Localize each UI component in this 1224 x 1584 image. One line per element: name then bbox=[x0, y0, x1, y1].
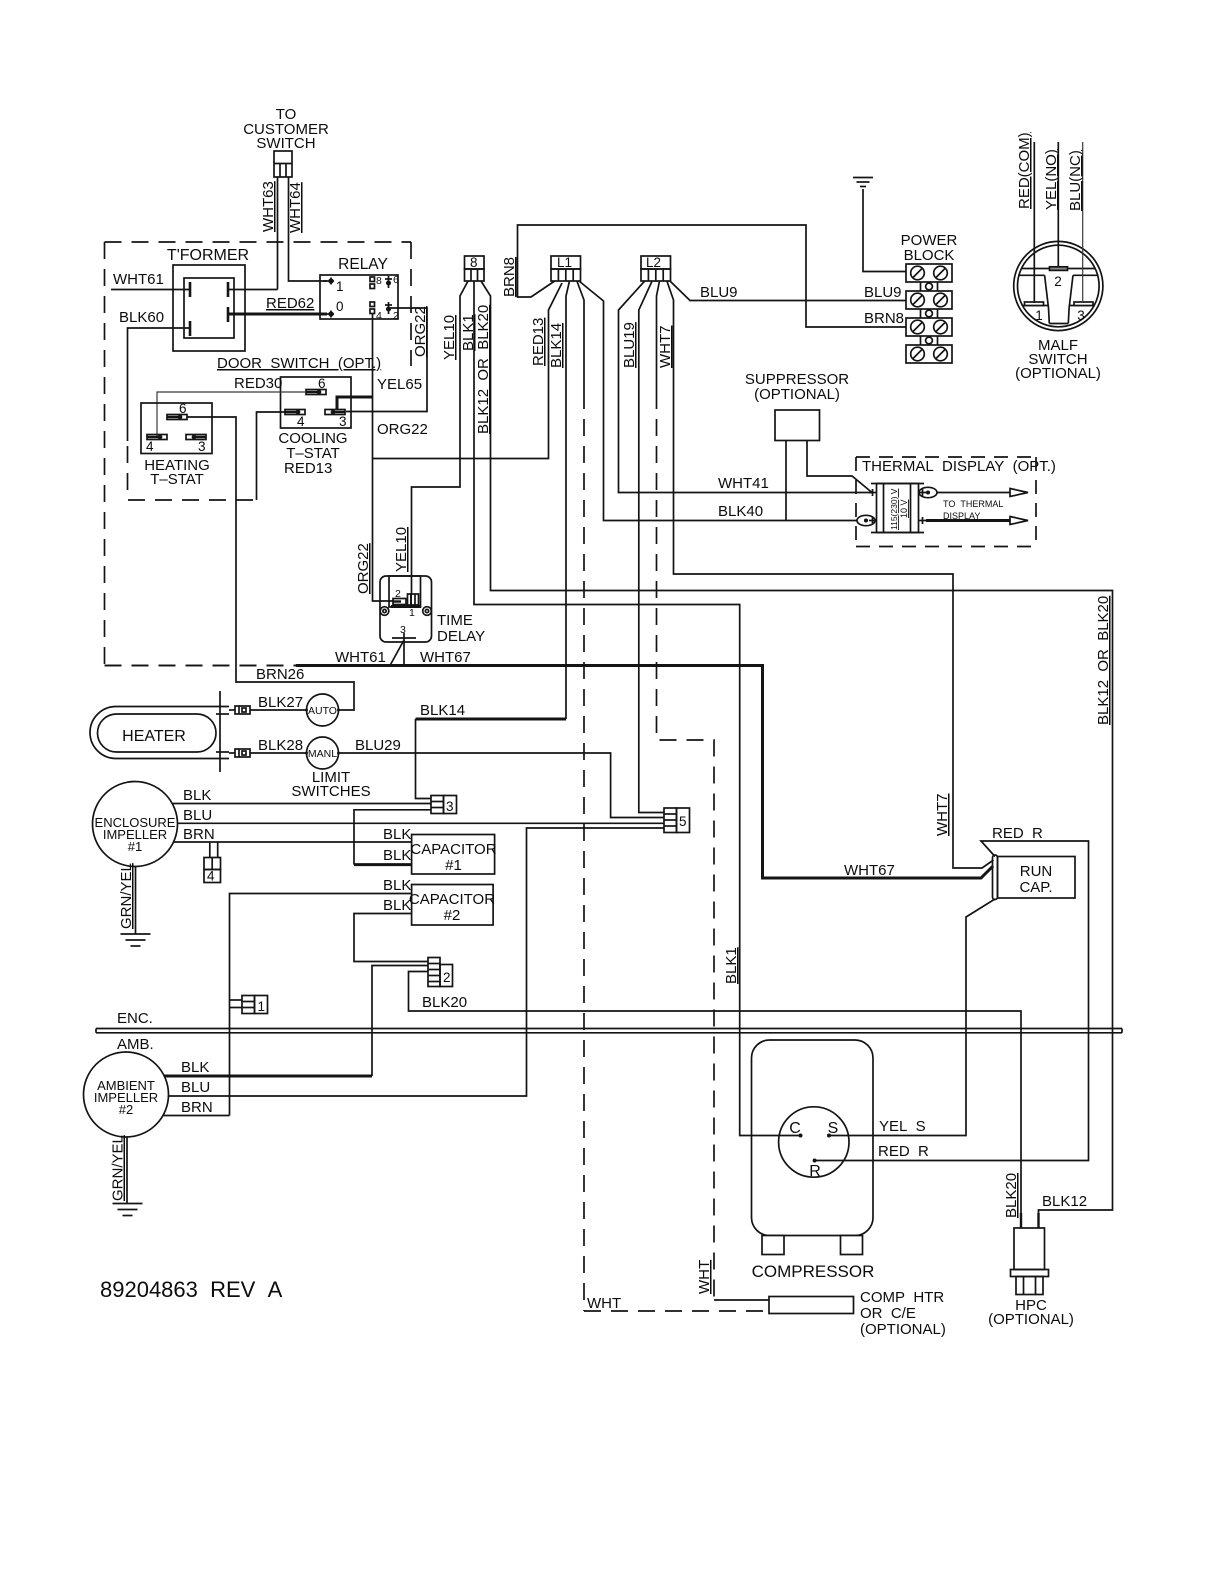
svg-text:10 V: 10 V bbox=[899, 499, 909, 518]
svg-text:6: 6 bbox=[179, 401, 187, 416]
svg-text:BLK: BLK bbox=[383, 826, 411, 843]
svg-text:4: 4 bbox=[207, 869, 215, 884]
svg-text:DELAY: DELAY bbox=[437, 628, 485, 645]
dashed box THERMAL DISPLAY (OPT.) bbox=[856, 457, 1036, 547]
svg-text:BLK12 OR BLK20: BLK12 OR BLK20 bbox=[1095, 596, 1112, 725]
label TO THERMAL DISPLAY bbox=[943, 499, 1003, 521]
svg-text:BLU9: BLU9 bbox=[700, 284, 738, 301]
svg-text:BLU29: BLU29 bbox=[355, 737, 401, 754]
connector 4 bbox=[204, 858, 221, 884]
svg-text:S: S bbox=[828, 1120, 839, 1137]
svg-text:BRN26: BRN26 bbox=[256, 666, 304, 683]
svg-text:YEL10: YEL10 bbox=[441, 315, 458, 360]
svg-text:(OPTIONAL): (OPTIONAL) bbox=[988, 1311, 1074, 1328]
svg-text:3: 3 bbox=[400, 624, 406, 636]
connector customer switch bbox=[274, 151, 292, 177]
svg-text:(OPTIONAL): (OPTIONAL) bbox=[860, 1321, 946, 1338]
svg-text:2: 2 bbox=[395, 588, 401, 600]
svg-text:5: 5 bbox=[679, 814, 687, 829]
svg-text:YEL10: YEL10 bbox=[393, 527, 410, 572]
heater COMP HTR OR C/E (OPTIONAL) bbox=[769, 1289, 946, 1338]
connector L1 bbox=[551, 255, 581, 281]
svg-text:2: 2 bbox=[443, 970, 451, 985]
partition line ENC/AMB bbox=[96, 1029, 1122, 1033]
ground wire GRN/YEL impeller1 bbox=[118, 863, 136, 934]
svg-text:RED62: RED62 bbox=[266, 295, 314, 312]
svg-text:ENC.: ENC. bbox=[117, 1010, 153, 1027]
wire BLK14 horizontal to connector 3 bbox=[416, 702, 567, 799]
svg-text:BLK40: BLK40 bbox=[718, 503, 763, 520]
svg-text:WHT7: WHT7 bbox=[657, 326, 674, 369]
wire WHT7 from L2 to run capacitor bbox=[657, 281, 994, 868]
ground symbol impeller1 bbox=[121, 934, 151, 946]
svg-text:2: 2 bbox=[393, 310, 399, 322]
wire BLK capacitor1 return to connector 3 bbox=[354, 810, 431, 865]
wire BLU9 from L2 to power block bbox=[670, 281, 906, 301]
svg-text:RED30: RED30 bbox=[234, 375, 282, 392]
svg-text:BRN: BRN bbox=[181, 1099, 213, 1116]
wire arrow to thermal display bottom bbox=[926, 517, 1028, 525]
wire YEL S compressor to run capacitor bbox=[829, 899, 995, 1136]
svg-text:RELAY: RELAY bbox=[338, 256, 388, 273]
wire BLK60 bbox=[119, 309, 190, 500]
wire WHT61 WHT67 main line bbox=[105, 640, 994, 879]
svg-text:GRN/YEL: GRN/YEL bbox=[118, 863, 135, 929]
svg-text:BLK27: BLK27 bbox=[258, 694, 303, 711]
svg-text:BLK20: BLK20 bbox=[422, 994, 467, 1011]
wire RED30 heating pin4 to cooling pin6 bbox=[157, 375, 306, 437]
svg-text:WHT64: WHT64 bbox=[287, 182, 304, 233]
transformer thermal display 115(230)V / 10V bbox=[857, 484, 937, 533]
svg-text:ORG22: ORG22 bbox=[412, 306, 429, 357]
wire BLK40 from L1 wire to thermal display bbox=[579, 281, 857, 521]
wire BLK12 OR BLK20 connector 8 to HPC bbox=[475, 281, 1113, 1228]
svg-text:WHT67: WHT67 bbox=[844, 862, 895, 879]
svg-text:WHT41: WHT41 bbox=[718, 475, 769, 492]
svg-text:WHT: WHT bbox=[696, 1260, 713, 1294]
svg-text:BLK: BLK bbox=[383, 847, 411, 864]
wire ORG22 relay pin4 down to time delay pin2 bbox=[373, 313, 428, 601]
svg-text:3: 3 bbox=[339, 414, 347, 429]
motor AMBIENT IMPELLER #2 bbox=[84, 1052, 169, 1137]
relay RELAY bbox=[320, 256, 399, 322]
pressure switch HPC (OPTIONAL) bbox=[988, 1213, 1074, 1328]
wire RED(COM) bbox=[1016, 132, 1034, 303]
svg-text:OR C/E: OR C/E bbox=[860, 1305, 916, 1322]
svg-text:0: 0 bbox=[336, 299, 344, 314]
svg-text:MANL: MANL bbox=[308, 748, 337, 760]
svg-text:WHT61: WHT61 bbox=[113, 271, 164, 288]
svg-text:COMPRESSOR: COMPRESSOR bbox=[752, 1262, 875, 1281]
svg-text:BLU9: BLU9 bbox=[864, 284, 902, 301]
motor ENCLOSURE IMPELLER #1 bbox=[93, 782, 178, 867]
wire BLK impeller2 to connector 2 bbox=[164, 966, 428, 1077]
svg-text:#1: #1 bbox=[128, 839, 142, 854]
svg-text:3: 3 bbox=[198, 439, 206, 454]
svg-text:BLK20: BLK20 bbox=[1003, 1173, 1020, 1218]
wire suppressor right lead bbox=[807, 441, 872, 493]
svg-text:ORG22: ORG22 bbox=[377, 421, 428, 438]
svg-text:2: 2 bbox=[1054, 274, 1062, 289]
wire BLU(NC) bbox=[1067, 142, 1084, 303]
svg-text:BLU: BLU bbox=[183, 807, 212, 824]
connector 8 bbox=[465, 255, 485, 281]
svg-text:DOOR SWITCH (OPT.): DOOR SWITCH (OPT.) bbox=[217, 355, 381, 372]
wire YEL10 connector 8 to time delay pin1 bbox=[393, 281, 468, 594]
thermostat HEATING T-STAT bbox=[141, 401, 212, 488]
svg-text:HEATER: HEATER bbox=[122, 728, 186, 745]
svg-text:THERMAL DISPLAY (OPT.): THERMAL DISPLAY (OPT.) bbox=[862, 458, 1056, 475]
svg-text:AUTO: AUTO bbox=[308, 705, 337, 717]
svg-text:T'FORMER: T'FORMER bbox=[167, 247, 249, 264]
wire BLK20 connector 2 to HPC bbox=[409, 972, 1022, 1229]
power block POWER BLOCK bbox=[901, 232, 958, 363]
label TO CUSTOMER SWITCH bbox=[243, 106, 329, 152]
svg-text:TIME: TIME bbox=[437, 612, 473, 629]
wire BLK capacitor2 top to connector 1 and ambient BRN bbox=[230, 877, 412, 1116]
wire WHT optional dashed from L2 to comp htr bbox=[657, 281, 770, 1300]
svg-text:BLK28: BLK28 bbox=[258, 737, 303, 754]
wire BRN26 heating pin6 to AUTO limit switch bbox=[187, 417, 354, 710]
suppressor SUPPRESSOR (OPTIONAL) bbox=[745, 371, 849, 441]
wire ground to power block bbox=[863, 189, 906, 272]
svg-text:WHT61: WHT61 bbox=[335, 649, 386, 666]
svg-text:CAPACITOR: CAPACITOR bbox=[409, 891, 495, 908]
dashed box DOOR SWITCH (OPT.) bbox=[105, 242, 412, 666]
svg-text:GRN/YEL: GRN/YEL bbox=[110, 1135, 127, 1201]
wire BRN impeller1 to capacitor 1 bbox=[174, 826, 412, 858]
svg-text:BLOCK: BLOCK bbox=[904, 247, 955, 264]
svg-text:YEL(NO): YEL(NO) bbox=[1043, 149, 1060, 210]
wire arrow to thermal display top bbox=[937, 489, 1028, 497]
connector 1 bbox=[242, 996, 268, 1015]
svg-text:6: 6 bbox=[393, 274, 399, 286]
svg-text:BLK: BLK bbox=[383, 877, 411, 894]
svg-text:BLK14: BLK14 bbox=[548, 323, 565, 368]
svg-text:4: 4 bbox=[146, 439, 154, 454]
svg-text:BLK: BLK bbox=[383, 897, 411, 914]
wire BLK impeller1 to connector 3 bbox=[173, 787, 432, 804]
wire suppressor left lead bbox=[785, 441, 787, 521]
connector L2 bbox=[641, 255, 671, 281]
svg-text:#2: #2 bbox=[444, 907, 461, 924]
svg-text:WHT: WHT bbox=[587, 1295, 621, 1312]
svg-text:8: 8 bbox=[376, 275, 382, 287]
svg-text:COMP HTR: COMP HTR bbox=[860, 1289, 944, 1306]
wire WHT41 from L2 to thermal display transformer bbox=[619, 281, 873, 493]
wire BLU19 from L2 to connector 5 bbox=[621, 281, 664, 813]
svg-text:#1: #1 bbox=[445, 857, 462, 874]
svg-text:RED R: RED R bbox=[878, 1143, 929, 1160]
svg-text:1: 1 bbox=[258, 999, 266, 1014]
wire BLK14 connector L1 down bbox=[548, 281, 570, 719]
svg-text:BLU(NC): BLU(NC) bbox=[1067, 150, 1084, 211]
wire BLU29 MANL to connector 5 bbox=[339, 737, 665, 818]
heater HEATER bbox=[90, 691, 250, 772]
svg-text:BLK12: BLK12 bbox=[1042, 1193, 1087, 1210]
ground symbol impeller2 bbox=[113, 1204, 143, 1216]
svg-text:YEL S: YEL S bbox=[879, 1118, 926, 1135]
time delay TIME DELAY bbox=[380, 576, 485, 666]
svg-text:89204863 REV A: 89204863 REV A bbox=[100, 1277, 283, 1302]
wire BLK27 heater to AUTO bbox=[250, 694, 307, 711]
svg-text:TO THERMAL: TO THERMAL bbox=[943, 499, 1003, 509]
wire WHT64 bbox=[287, 177, 327, 281]
svg-text:4: 4 bbox=[376, 310, 382, 322]
wire BLK28 heater to MANL bbox=[250, 737, 307, 754]
wire BLK1 connector 8 to compressor C bbox=[460, 281, 801, 1136]
label LIMIT SWITCHES bbox=[291, 769, 370, 800]
svg-text:BRN8: BRN8 bbox=[501, 257, 518, 297]
svg-text:1: 1 bbox=[1035, 308, 1043, 323]
compressor COMPRESSOR bbox=[752, 1040, 875, 1281]
svg-text:1: 1 bbox=[409, 607, 415, 619]
wire BLU impeller1 to connector 5 bbox=[178, 807, 665, 824]
svg-text:YEL65: YEL65 bbox=[377, 376, 422, 393]
wire BRN impeller2 to connector 1 bbox=[163, 1099, 230, 1116]
ground wire GRN/YEL impeller2 bbox=[110, 1135, 128, 1203]
svg-text:RED13: RED13 bbox=[530, 318, 547, 366]
capacitor CAPACITOR #1 bbox=[410, 835, 496, 875]
svg-text:L2: L2 bbox=[646, 255, 661, 270]
svg-text:ORG22: ORG22 bbox=[355, 543, 372, 594]
svg-text:3: 3 bbox=[446, 799, 454, 814]
svg-text:BLU19: BLU19 bbox=[621, 322, 638, 368]
svg-text:RED13: RED13 bbox=[284, 460, 332, 477]
svg-text:CAP.: CAP. bbox=[1019, 879, 1052, 896]
connector 2 bbox=[428, 958, 453, 987]
ground symbol top bbox=[853, 178, 873, 187]
wire RED R compressor to run capacitor bbox=[815, 825, 1089, 1161]
svg-text:#2: #2 bbox=[119, 1102, 133, 1117]
thermostat COOLING T-STAT bbox=[278, 376, 351, 462]
svg-text:1: 1 bbox=[336, 279, 344, 294]
wire BLU impeller2 to connector 5 bbox=[168, 828, 664, 1096]
wire BRN8 connector L1 to power block bbox=[501, 225, 906, 327]
svg-text:BLK14: BLK14 bbox=[420, 702, 465, 719]
svg-text:(OPTIONAL): (OPTIONAL) bbox=[1015, 365, 1101, 382]
wire ORG22 relay pin2 to cooling t-stat pin3 bbox=[346, 306, 429, 411]
svg-text:BRN: BRN bbox=[183, 826, 215, 843]
svg-text:115(230) V: 115(230) V bbox=[889, 488, 899, 530]
connector 3 bbox=[431, 796, 457, 815]
svg-text:BLK: BLK bbox=[183, 787, 211, 804]
limit switch AUTO bbox=[305, 694, 340, 726]
svg-text:BLK: BLK bbox=[181, 1059, 209, 1076]
wire YEL(NO) bbox=[1043, 142, 1060, 267]
wire cooling pin4 to dashed stub bbox=[128, 412, 285, 500]
svg-text:BLK12 OR BLK20: BLK12 OR BLK20 bbox=[475, 305, 492, 434]
svg-text:BLU: BLU bbox=[181, 1079, 210, 1096]
svg-text:C: C bbox=[789, 1120, 801, 1137]
svg-text:WHT67: WHT67 bbox=[420, 649, 471, 666]
svg-text:T–STAT: T–STAT bbox=[150, 471, 204, 488]
svg-text:RUN: RUN bbox=[1020, 863, 1053, 880]
svg-text:(OPTIONAL): (OPTIONAL) bbox=[754, 386, 840, 403]
wire RED62 bbox=[228, 295, 327, 314]
svg-text:WHT7: WHT7 bbox=[934, 794, 951, 837]
transformer T'FORMER bbox=[167, 247, 249, 351]
svg-text:AMB.: AMB. bbox=[117, 1036, 154, 1053]
svg-text:BLK60: BLK60 bbox=[119, 309, 164, 326]
wire WHT63 bbox=[228, 177, 278, 290]
svg-text:CAPACITOR: CAPACITOR bbox=[410, 841, 496, 858]
svg-text:BLK1: BLK1 bbox=[723, 947, 740, 984]
svg-text:RED(COM): RED(COM) bbox=[1016, 132, 1033, 209]
wire WHT61 bbox=[111, 271, 190, 290]
wire WHT optional dashed from L1 to comp htr bbox=[577, 281, 769, 1312]
svg-text:WHT63: WHT63 bbox=[260, 181, 277, 232]
svg-text:6: 6 bbox=[318, 376, 326, 391]
limit switch MANL bbox=[305, 737, 340, 769]
svg-text:SWITCH: SWITCH bbox=[256, 135, 315, 152]
connector 5 bbox=[664, 808, 690, 833]
svg-text:BRN8: BRN8 bbox=[864, 310, 904, 327]
svg-text:SWITCHES: SWITCHES bbox=[291, 783, 370, 800]
svg-text:RED R: RED R bbox=[992, 825, 1043, 842]
svg-text:4: 4 bbox=[297, 414, 305, 429]
run capacitor RUN CAP. bbox=[993, 855, 1076, 900]
wire YEL65 relay pin4 branch to cooling t-stat pin3 bbox=[337, 376, 422, 410]
svg-text:L1: L1 bbox=[557, 255, 572, 270]
svg-text:R: R bbox=[809, 1163, 821, 1180]
svg-text:3: 3 bbox=[1077, 308, 1085, 323]
wire RED13 branch to connector L1 bbox=[373, 283, 563, 459]
svg-text:8: 8 bbox=[470, 255, 478, 270]
malf switch MALF SWITCH (OPTIONAL) bbox=[1014, 241, 1103, 382]
capacitor CAPACITOR #2 bbox=[409, 885, 495, 926]
wire BLK capacitor2 bottom to connector 2 bbox=[354, 897, 428, 962]
